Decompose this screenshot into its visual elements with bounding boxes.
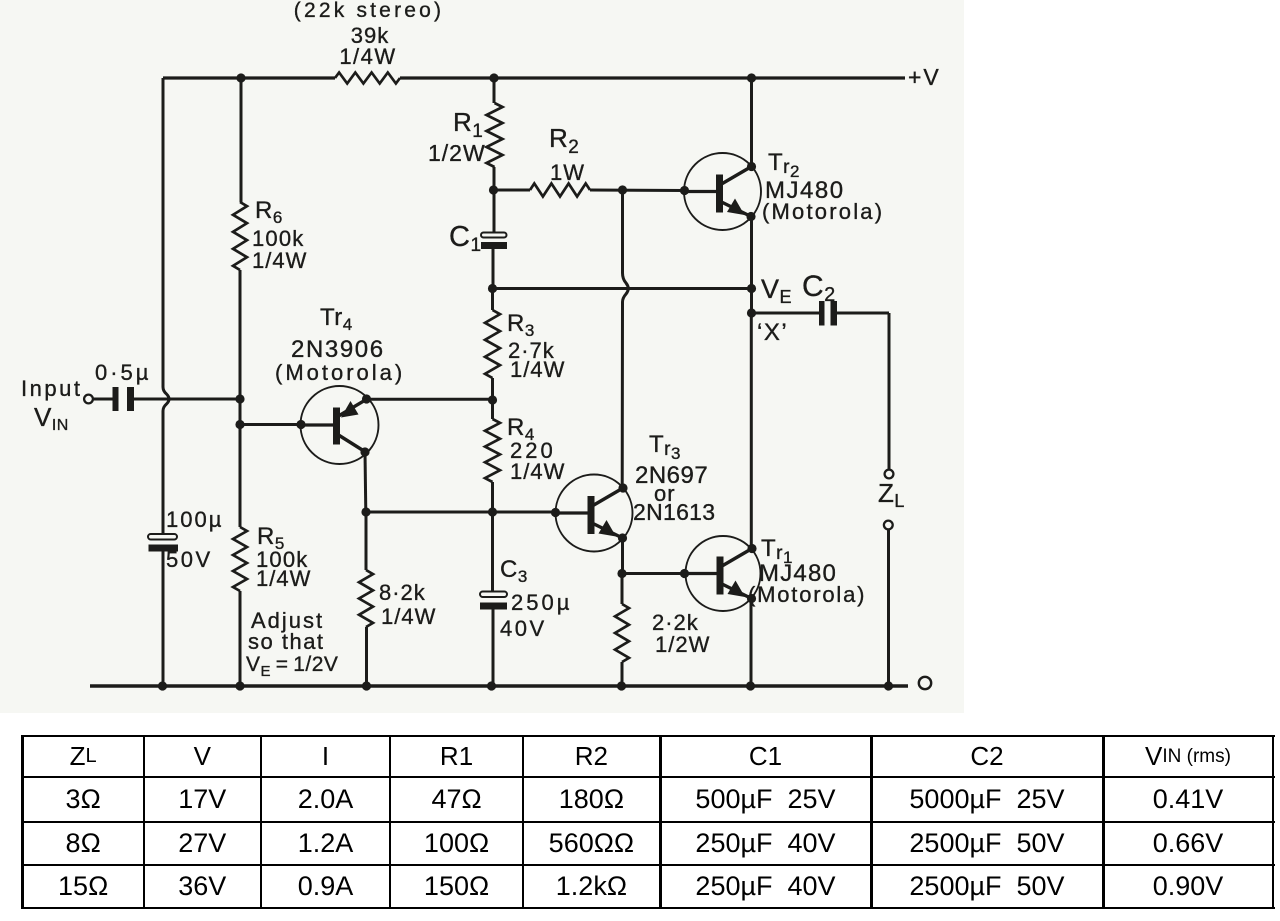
svg-text:1W: 1W (550, 160, 585, 185)
svg-text:1/4W: 1/4W (339, 44, 396, 69)
wire ZL column lower (887, 530, 890, 687)
wire X node down to Tr1 collector (750, 313, 753, 549)
transistor Tr1 MJ480 NPN (686, 536, 761, 611)
node dot X node (747, 308, 756, 317)
svg-text:C1: C1 (449, 221, 482, 256)
wire VE node to X node (750, 289, 753, 314)
svg-text:C2: C2 (802, 270, 836, 306)
resistor R4 220 1/4W (485, 419, 500, 482)
svg-text:2N1613: 2N1613 (633, 499, 715, 525)
capacitor 100u 50V top plate (148, 534, 177, 540)
wire C3 to bottom rail (492, 610, 495, 687)
load ZL terminal top circle (885, 470, 894, 479)
svg-text:R6: R6 (255, 197, 283, 227)
node dot base branch junction (235, 420, 244, 429)
wire R1 node to R2 (494, 189, 530, 192)
wire R2 to Tr2 base node (590, 189, 685, 193)
node dot bottom rail x751 (746, 681, 755, 690)
wire C2 to ZL corner (837, 312, 889, 315)
wire input node to base node (239, 399, 242, 425)
wire ZL column upper (888, 313, 891, 470)
node dot bottom rail x889 (884, 681, 893, 690)
wire top rail to R1 (493, 78, 496, 103)
wire Tr2 base column with hop over VE wire (622, 190, 628, 488)
wire X node to C2 (752, 312, 820, 315)
wire junction to 2.2k (621, 574, 624, 605)
wire R1 to C1 (493, 167, 496, 232)
wire bottom 0V rail (90, 684, 908, 687)
wire 8.2k node to Tr3 base (366, 511, 556, 514)
wire left column lower (162, 552, 165, 687)
wire Tr4 collector down to 8.2k node (364, 452, 368, 512)
wire 2.2k to bottom rail (621, 662, 624, 686)
node dot top rail / Tr2 collector column (747, 73, 756, 82)
wire Tr1 emitter to bottom rail (750, 598, 753, 686)
svg-text:1/4W: 1/4W (256, 566, 311, 591)
svg-text:‘X’: ‘X’ (757, 319, 788, 346)
wire left column upper with hop over input wire (163, 78, 169, 534)
capacitor C3 bottom plate (480, 603, 507, 610)
wire VE node line (493, 287, 752, 290)
wire R3 to R4 (491, 378, 494, 419)
svg-text:VIN: VIN (34, 402, 69, 434)
svg-text:VE: VE (761, 274, 792, 307)
wire VE node to R3 (491, 289, 494, 311)
wire input terminal to capacitor (93, 398, 116, 401)
svg-text:1/2W: 1/2W (428, 140, 486, 166)
resistor R5 100k 1/4W (233, 527, 247, 591)
label 0 terminal (919, 677, 931, 689)
svg-text:8·2k: 8·2k (379, 580, 426, 605)
capacitor 100u 50V bottom plate (149, 545, 179, 552)
capacitor C1 top plate (481, 233, 507, 238)
svg-text:1/4W: 1/4W (510, 459, 565, 484)
node dot Tr1 base (680, 569, 689, 578)
svg-text:Tr4: Tr4 (320, 304, 353, 334)
svg-text:ZL: ZL (878, 478, 905, 511)
node dot top rail / R6 (236, 73, 245, 82)
svg-text:R2: R2 (549, 123, 579, 158)
wire base node down to R5 (239, 425, 242, 528)
svg-text:VE = 1/2V: VE = 1/2V (246, 653, 338, 680)
svg-text:100µ: 100µ (166, 507, 223, 532)
svg-text:Input: Input (21, 376, 82, 401)
wire 8.2k to bottom rail (365, 627, 368, 686)
svg-text:2N3906: 2N3906 (291, 336, 385, 363)
capacitor C2 left plate (819, 301, 825, 326)
wire top rail to R6 (240, 78, 243, 202)
svg-text:250µ: 250µ (511, 590, 572, 615)
node dot Tr4 base (296, 420, 305, 429)
input terminal circle (84, 395, 93, 404)
node dot input/R6 junction (235, 394, 244, 403)
svg-text:(Motorola): (Motorola) (748, 582, 866, 607)
resistor R3 2.7k 1/4W (485, 310, 500, 378)
svg-text:(Motorola): (Motorola) (275, 360, 405, 385)
svg-text:1/4W: 1/4W (381, 604, 436, 629)
capacitor 0.5u left plate (113, 387, 119, 411)
load ZL terminal bottom circle (884, 521, 893, 530)
resistor 39k (22k stereo) 1/4W (335, 73, 400, 84)
wire Tr3 emitter down (621, 538, 624, 574)
wire base node to Tr4 (240, 423, 301, 426)
wire +V top rail (163, 76, 335, 79)
wire R6 to input node (239, 270, 242, 399)
svg-text:C3: C3 (500, 556, 528, 586)
node dot bottom rail x493 (487, 681, 496, 690)
svg-text:1/2W: 1/2W (655, 632, 710, 657)
svg-text:1/4W: 1/4W (510, 357, 565, 382)
wire top rail right of 39k (400, 76, 905, 79)
svg-text:40V: 40V (500, 616, 547, 641)
transistor Tr4 2N3906 PNP (301, 386, 379, 464)
svg-text:+V: +V (908, 64, 941, 90)
node dot top rail / R1 (489, 73, 498, 82)
node dot bottom rail x366 (362, 681, 371, 690)
wire Tr3 emitter node to Tr1 base (622, 572, 685, 575)
wire top rail to Tr2 collector (750, 78, 753, 167)
node dot R4/C3/base-wire junction (488, 507, 497, 516)
capacitor C2 right plate (831, 301, 838, 326)
node dot VE wire left end (488, 284, 497, 293)
node dot R3/R4 junction (488, 395, 497, 404)
resistor R1 1/2W (487, 103, 503, 167)
node dot bottom rail x240 (235, 681, 244, 690)
svg-text:R3: R3 (507, 310, 535, 340)
svg-text:0·5µ: 0·5µ (95, 360, 151, 385)
resistor 2.2k 1/2W (615, 604, 629, 662)
wire Tr2 emitter to VE node (750, 217, 753, 289)
svg-text:1/4W: 1/4W (252, 248, 307, 273)
transistor Tr2 MJ480 NPN (684, 153, 761, 230)
wire R5 to bottom rail (239, 591, 242, 686)
node dot 8.2k top junction (361, 507, 370, 516)
svg-text:R1: R1 (453, 107, 483, 142)
svg-text:Tr3: Tr3 (649, 431, 681, 463)
transistor Tr3 2N697 NPN (556, 475, 633, 552)
wire C1 to VE node (492, 249, 495, 289)
node dot VE right (747, 284, 756, 293)
node dot Tr2 base (680, 186, 689, 195)
wire R4 to Tr3 base wire (491, 482, 494, 591)
node dot Tr3 emitter / 2.2k junction (617, 569, 626, 578)
node dot R1/R2/C1 junction (489, 185, 498, 194)
svg-text:(22k stereo): (22k stereo) (294, 0, 444, 22)
wire Tr4 emitter to R3/R4 node (367, 398, 493, 401)
node dot bottom rail x622 (617, 681, 626, 690)
table: amplifier component value table (22, 735, 1275, 737)
svg-text:so that: so that (248, 629, 325, 654)
node dot bottom rail x163 (158, 681, 167, 690)
svg-text:50V: 50V (166, 547, 213, 572)
svg-text:(Motorola): (Motorola) (762, 199, 884, 224)
wire input capacitor to R6 column (134, 398, 240, 401)
node dot Tr3 base (551, 508, 560, 517)
wire 8.2k node to zigzag (365, 512, 368, 570)
capacitor C3 top plate (480, 592, 507, 598)
capacitor 0.5u right plate (127, 387, 134, 411)
resistor R6 100k 1/4W (233, 202, 247, 270)
resistor R2 1W (530, 184, 590, 197)
node dot R2/Tr2-base/Tr3-collector junction (618, 185, 627, 194)
resistor 8.2k 1/4W (359, 570, 373, 627)
capacitor C1 bottom plate (481, 242, 507, 249)
